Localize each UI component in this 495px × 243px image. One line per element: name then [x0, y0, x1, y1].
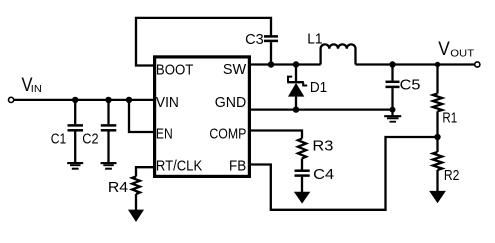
- ground arrow R2: [429, 191, 446, 203]
- diode D1 schottky: [287, 65, 307, 110]
- label VIN: [22, 74, 42, 96]
- svg-text:D1: D1: [310, 79, 327, 96]
- junction C3/SW: [268, 61, 274, 67]
- ground earth C2: [101, 163, 117, 169]
- op-amp U1 (regulator IC): [155, 57, 250, 176]
- ground earth C5: [384, 110, 401, 122]
- svg-text:R2: R2: [444, 167, 460, 184]
- resistor R1: [433, 65, 442, 138]
- svg-text:GND: GND: [215, 94, 247, 111]
- svg-text:C3: C3: [245, 31, 264, 48]
- resistor R2: [433, 137, 442, 191]
- junction R1 tap: [435, 62, 440, 67]
- wire EN branch: [129, 100, 153, 132]
- ground arrow C4: [294, 192, 310, 204]
- capacitor C4: [295, 171, 310, 193]
- inductor L1: [321, 44, 356, 64]
- junction D1/SW: [293, 61, 299, 67]
- svg-text:C4: C4: [313, 166, 334, 183]
- ground earth C1: [67, 163, 83, 169]
- svg-text:V: V: [438, 38, 450, 60]
- svg-text:C2: C2: [82, 131, 98, 148]
- junction C2: [105, 97, 111, 103]
- capacitor C2: [101, 100, 117, 163]
- capacitor C1: [68, 100, 84, 163]
- wire RT/CLK: [136, 167, 153, 176]
- svg-text:C5: C5: [400, 77, 421, 94]
- wire VIN rail: [14, 99, 153, 101]
- junction EN branch: [126, 97, 132, 103]
- ground arrow R4: [128, 210, 144, 222]
- wire SW segment: [251, 63, 321, 65]
- junction C5/GND: [390, 107, 396, 113]
- capacitor C3: [264, 36, 278, 64]
- wire COMP: [251, 131, 302, 139]
- svg-text:RT/CLK: RT/CLK: [156, 158, 202, 175]
- resistor R3: [298, 139, 306, 159]
- svg-text:SW: SW: [223, 61, 247, 78]
- svg-text:BOOT: BOOT: [156, 61, 194, 78]
- svg-text:VIN: VIN: [156, 94, 179, 111]
- svg-text:FB: FB: [229, 158, 246, 175]
- junction D1/GND: [293, 106, 299, 112]
- svg-text:L1: L1: [307, 30, 322, 47]
- junction C5/VOUT: [389, 61, 395, 67]
- junction FB/R1R2: [434, 134, 440, 140]
- svg-text:IN: IN: [31, 84, 42, 95]
- label VOUT: [438, 38, 474, 60]
- svg-text:COMP: COMP: [209, 126, 246, 143]
- terminal VIN: [9, 97, 14, 102]
- resistor R4: [132, 177, 140, 211]
- svg-text:EN: EN: [156, 126, 173, 143]
- capacitor C5: [386, 65, 400, 110]
- wire L1 to VOUT: [356, 63, 475, 65]
- junction C1: [72, 97, 78, 103]
- svg-text:R1: R1: [442, 110, 457, 127]
- svg-text:C1: C1: [51, 131, 67, 148]
- svg-text:R3: R3: [312, 137, 333, 154]
- terminal VOUT: [475, 62, 480, 67]
- wire GND: [251, 108, 393, 110]
- wire BOOT loop: [136, 18, 271, 66]
- svg-text:R4: R4: [108, 179, 128, 196]
- svg-text:OUT: OUT: [450, 48, 474, 59]
- wire FB loop: [251, 137, 438, 210]
- wire R3 to C4: [301, 159, 303, 170]
